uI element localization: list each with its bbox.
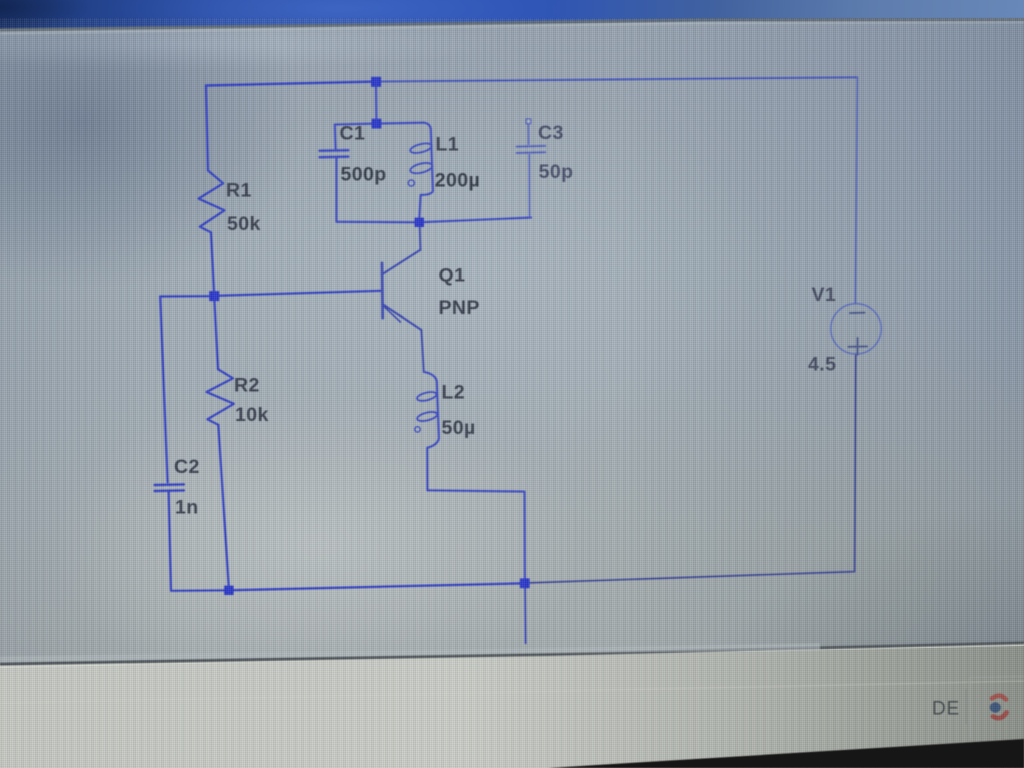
wire R2 top lead [214, 297, 218, 370]
divider dark line [0, 642, 1024, 666]
separator right of DE [965, 689, 967, 724]
junction nodes [209, 77, 530, 595]
blue desktop band at top of photographed screen [0, 0, 1024, 34]
wire bottom-left to node [171, 589, 229, 592]
wire R1 to base node [211, 232, 214, 291]
wire top rail [206, 82, 376, 86]
taskbar groove [0, 681, 1024, 704]
tray language icon [992, 696, 1006, 700]
wire L2 bottom to mid [427, 490, 524, 579]
wire R2 to bottom node [218, 425, 229, 589]
wire C2 to bottom-left corner [169, 492, 171, 590]
wire tank bottom [336, 218, 531, 223]
inductor L1 [419, 123, 433, 219]
transistor Q1 [382, 223, 424, 372]
node top rail [371, 77, 381, 87]
inductor L2 [424, 372, 439, 490]
voltage source V1 [831, 304, 881, 354]
wire tank horizontal [335, 123, 424, 125]
wire left corner down to C2 [160, 297, 167, 483]
taskbar band [0, 643, 1024, 768]
V1 polarity marks [849, 313, 868, 355]
capacitor C2 [155, 484, 184, 491]
resistor R1 [199, 171, 225, 233]
resistor R2 [207, 369, 234, 425]
capacitor C1 [334, 125, 337, 150]
wire stub below bottom node [524, 588, 527, 644]
wire tank vertical from top node [320, 86, 531, 579]
wire base node to left corner [160, 295, 214, 297]
node bottom mid [520, 578, 530, 588]
wire base node to Q1 [214, 291, 381, 296]
wire right rail with source V1 [529, 77, 881, 583]
tray icon box [970, 676, 1024, 737]
node tank bottom [415, 218, 424, 227]
node tank top [372, 119, 382, 129]
node base [209, 291, 219, 301]
capacitor C3 [517, 119, 546, 216]
wire left rail upper [206, 86, 208, 171]
separator left of DE [896, 691, 897, 728]
emitter arrow (PNP) [383, 305, 402, 317]
node bottom left [224, 586, 233, 595]
unconnected pin square C3 [526, 119, 531, 124]
wire bottom node to right [229, 583, 525, 590]
